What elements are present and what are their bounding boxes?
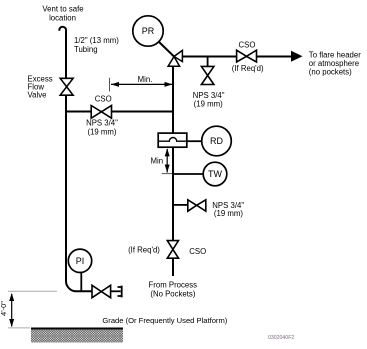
- dimension 4'-0": lower reference line: [8, 327, 30, 329]
- wire: top header line: [182, 56, 292, 58]
- dimension Min mid: double arrow: [166, 149, 168, 173]
- wire: branch to drain valve: [173, 204, 188, 206]
- svg-text:(If Req'd): (If Req'd): [128, 246, 160, 255]
- svg-text:(19 mm): (19 mm): [87, 127, 116, 136]
- vent gooseneck: [59, 27, 66, 34]
- svg-text:(19 mm): (19 mm): [194, 100, 223, 109]
- instrument PI (circle): [68, 249, 91, 272]
- svg-text:(19 mm): (19 mm): [214, 209, 243, 218]
- instrument RD (circle): [202, 126, 232, 156]
- flow arrow to flare: [291, 51, 303, 62]
- wire: RD tap line: [187, 140, 202, 142]
- excess flow valve (vertical hourglass): [60, 78, 73, 95]
- svg-text:4'-0": 4'-0": [0, 301, 8, 316]
- instrument PR (circle): [133, 16, 163, 46]
- svg-text:To flare header: To flare header: [309, 50, 361, 59]
- dimension Min. top: extension tick: [109, 78, 111, 92]
- svg-text:CSO: CSO: [95, 95, 112, 104]
- wire: left vent pipe lower segment with bottom curve: [66, 95, 92, 291]
- svg-text:Valve: Valve: [28, 91, 47, 100]
- svg-text:(no pockets): (no pockets): [309, 68, 352, 77]
- wire: PI stub to drain line: [80, 272, 82, 291]
- svg-text:(If Req'd): (If Req'd): [232, 64, 264, 73]
- svg-text:(No Pockets): (No Pockets): [150, 290, 195, 299]
- valve CSO bottom (vertical hourglass): [167, 241, 178, 259]
- svg-text:PI: PI: [76, 256, 85, 266]
- wire: left vent pipe upper segment: [65, 33, 67, 78]
- svg-text:From Process: From Process: [149, 281, 198, 290]
- svg-text:PR: PR: [142, 26, 155, 36]
- valve NPS 3/4 on top stub (vertical hourglass): [201, 66, 214, 84]
- svg-text:CSO: CSO: [189, 247, 206, 256]
- svg-text:TW: TW: [208, 169, 222, 179]
- valve NPS 3/4 branch (horizontal bowtie): [188, 200, 206, 211]
- wire: stub down to NPS 3/4 valve: [207, 57, 209, 67]
- dimension Min mid: bottom tick: [162, 173, 172, 175]
- dimension Min. top: double arrow: [111, 83, 173, 85]
- svg-text:Min: Min: [151, 157, 164, 166]
- wire: diagonal from PR to angle valve: [159, 42, 175, 57]
- valve on drain line (horizontal bowtie): [92, 285, 111, 297]
- svg-text:0302040F2: 0302040F2: [268, 335, 294, 341]
- svg-text:RD: RD: [210, 136, 223, 146]
- wire: main riser pipe: [172, 66, 174, 133]
- rupture disc holder RD (rect with bump): [158, 133, 187, 147]
- dimension 4'-0": double arrow: [11, 294, 13, 327]
- svg-text:Grade (Or Frequently Used Plat: Grade (Or Frequently Used Platform): [102, 316, 227, 325]
- svg-text:Vent to safe: Vent to safe: [42, 5, 83, 14]
- wire: TW tap line: [173, 173, 204, 175]
- grade line: [31, 328, 123, 330]
- instrument TW (circle): [203, 162, 227, 186]
- valve CSO on header (horizontal bowtie): [237, 50, 257, 62]
- grade hatch: [31, 330, 123, 343]
- svg-text:location: location: [49, 13, 76, 22]
- svg-text:Min.: Min.: [138, 75, 153, 84]
- valve CSO left (horizontal bowtie): [91, 106, 111, 119]
- wire: CSO branch line left: [66, 111, 173, 113]
- svg-text:Tubing: Tubing: [74, 45, 98, 54]
- svg-text:CSO: CSO: [239, 40, 256, 49]
- hose connection end cap: [118, 286, 122, 298]
- angle valve at top of riser: [174, 50, 182, 61]
- svg-text:1/2" (13 mm): 1/2" (13 mm): [74, 36, 119, 45]
- wire: drain stub to hose connection: [111, 290, 121, 292]
- dimension 4'-0": upper reference line: [8, 290, 57, 292]
